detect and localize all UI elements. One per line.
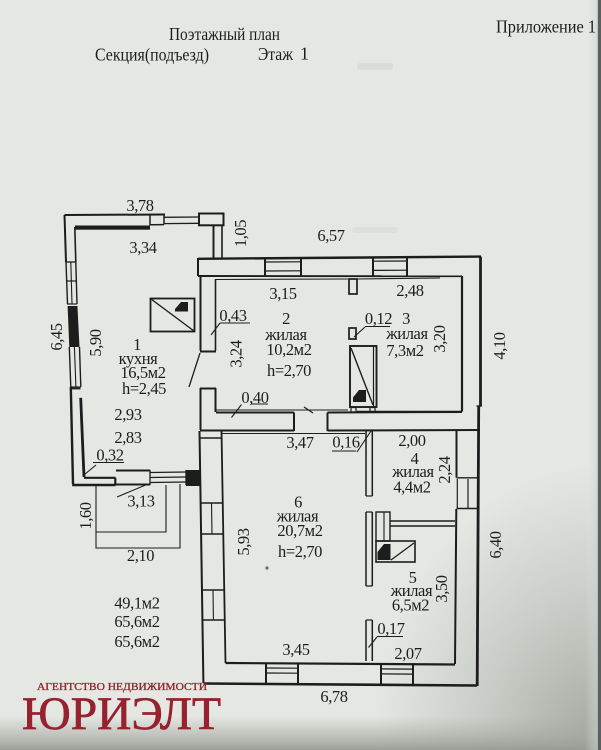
svg-text:6,5м2: 6,5м2 <box>392 596 429 615</box>
svg-text:2,48: 2,48 <box>396 281 423 300</box>
svg-text:49,1м2: 49,1м2 <box>114 594 159 613</box>
svg-text:3,78: 3,78 <box>126 196 153 215</box>
svg-text:1,05: 1,05 <box>231 220 250 247</box>
svg-text:ЮРИЭЛТ: ЮРИЭЛТ <box>22 688 221 740</box>
svg-text:20,7м2: 20,7м2 <box>277 521 322 540</box>
svg-text:3,24: 3,24 <box>227 340 246 367</box>
svg-text:6,78: 6,78 <box>320 687 347 706</box>
svg-text:h=2,45: h=2,45 <box>122 379 166 398</box>
svg-text:3,15: 3,15 <box>269 284 296 303</box>
svg-text:2,83: 2,83 <box>114 428 141 447</box>
svg-text:5,90: 5,90 <box>86 329 105 356</box>
svg-text:2,93: 2,93 <box>114 405 141 424</box>
svg-text:h=2,70: h=2,70 <box>278 542 322 561</box>
svg-text:3,13: 3,13 <box>127 492 154 511</box>
svg-text:6,40: 6,40 <box>486 531 505 558</box>
svg-text:3,47: 3,47 <box>286 433 313 452</box>
svg-text:10,2м2: 10,2м2 <box>266 340 311 359</box>
svg-text:3,45: 3,45 <box>282 640 309 659</box>
svg-text:0,32: 0,32 <box>96 446 123 465</box>
svg-text:5,93: 5,93 <box>234 528 253 555</box>
svg-text:2,24: 2,24 <box>435 456 454 483</box>
svg-text:0,17: 0,17 <box>377 619 404 638</box>
svg-text:3,50: 3,50 <box>432 575 451 602</box>
svg-text:4,4м2: 4,4м2 <box>393 478 430 497</box>
svg-text:7,3м2: 7,3м2 <box>386 341 423 360</box>
svg-text:1,60: 1,60 <box>76 502 95 529</box>
svg-text:Приложение 1: Приложение 1 <box>496 17 596 37</box>
svg-text:2,00: 2,00 <box>398 431 425 450</box>
svg-text:h=2,70: h=2,70 <box>267 361 311 380</box>
svg-text:2,07: 2,07 <box>394 644 421 663</box>
svg-text:0,16: 0,16 <box>332 433 359 452</box>
svg-text:1: 1 <box>300 44 309 64</box>
svg-text:0,40: 0,40 <box>241 388 268 407</box>
svg-text:Секция(подъезд): Секция(подъезд) <box>95 45 209 66</box>
svg-text:65,6м2: 65,6м2 <box>114 632 159 651</box>
svg-text:3,20: 3,20 <box>430 325 449 352</box>
svg-text:4,10: 4,10 <box>490 332 509 359</box>
svg-text:65,6м2: 65,6м2 <box>114 612 159 631</box>
svg-text:2,10: 2,10 <box>127 546 154 565</box>
svg-text:6,57: 6,57 <box>317 226 344 245</box>
svg-text:3,34: 3,34 <box>129 238 156 257</box>
svg-text:Этаж: Этаж <box>258 44 293 64</box>
svg-text:6,45: 6,45 <box>47 323 66 350</box>
svg-text:0,43: 0,43 <box>219 306 246 325</box>
svg-text:Поэтажный план: Поэтажный план <box>169 24 280 44</box>
